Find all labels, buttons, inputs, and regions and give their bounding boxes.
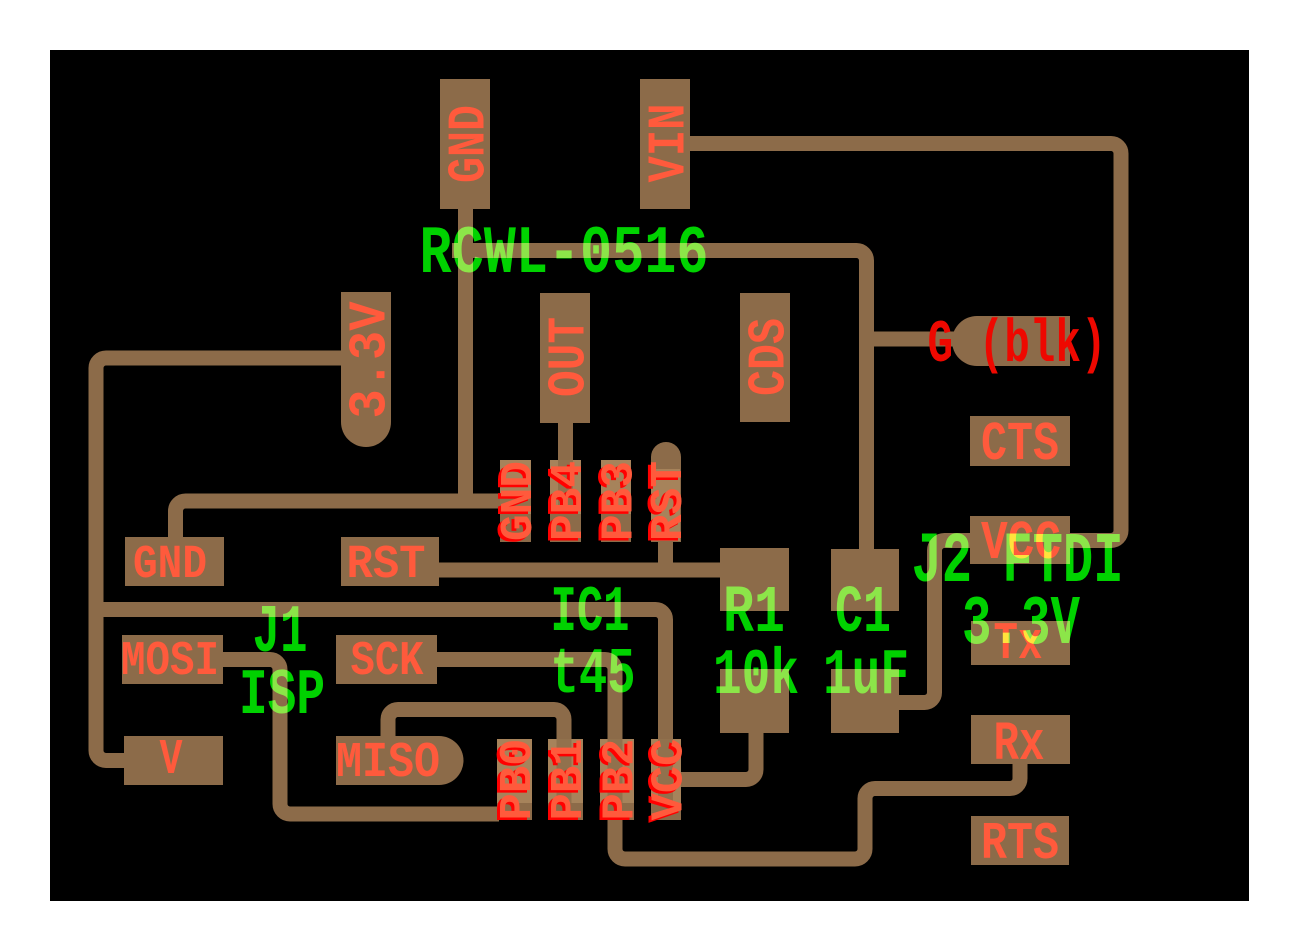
svg-text:RCWL-0516: RCWL-0516: [420, 216, 709, 293]
pad Rx (FTDI): [971, 715, 1070, 764]
svg-text:CDS: CDS: [740, 318, 800, 396]
wire VIN to FTDI VCC: [688, 144, 1121, 541]
pin pad PB1 of IC1 (light zone): [548, 739, 583, 803]
capacitor C1 bottom pad: [831, 669, 899, 733]
pad VCC (FTDI): [970, 516, 1070, 564]
pin pad PB0 of IC1 (light zone): [497, 739, 532, 803]
pad Tx (FTDI): [971, 621, 1070, 665]
wire 3.3V to V pad (left rail): [96, 358, 343, 761]
svg-text:PB4: PB4: [545, 461, 596, 541]
svg-text:OUT: OUT: [539, 317, 600, 397]
pin pad VCC of IC1 (light zone): [651, 739, 681, 803]
pad SCK (ISP header): [336, 635, 437, 684]
svg-text:10k: 10k: [713, 639, 799, 713]
pad VIN (module, top): [640, 79, 690, 209]
svg-text:G (blk): G (blk): [928, 310, 1107, 379]
pad RTS (FTDI): [971, 816, 1069, 865]
wire GND-left pad riser + horizontal to GND pin: [176, 501, 518, 539]
svg-text:GND: GND: [440, 105, 500, 183]
pad MOSI (ISP header): [122, 635, 223, 684]
svg-text:Rx: Rx: [994, 713, 1045, 775]
pin pad PB3 of IC1 (copper zone): [601, 514, 631, 542]
svg-text:PB2: PB2: [595, 739, 647, 821]
svg-text:GND: GND: [495, 461, 546, 541]
svg-text:t45: t45: [551, 639, 636, 712]
pad G blk (rounded left pill): [952, 316, 1070, 366]
svg-text:ISP: ISP: [239, 659, 325, 733]
wire RST pin stub: [658, 540, 673, 570]
svg-text:MOSI: MOSI: [121, 635, 219, 689]
wire branch to G (blk) pad: [867, 332, 956, 347]
pad RST (ISP header): [341, 537, 439, 586]
wire RST pad to resistor R1: [437, 563, 722, 578]
pin pad PB1 of IC1 (copper zone): [548, 803, 583, 820]
pin pad PB4 of IC1 (light zone): [550, 460, 581, 514]
pad CDS (module): [740, 293, 790, 422]
wire shadow through VCC pin pad: [658, 739, 673, 803]
pin pad VCC of IC1 (copper zone): [651, 803, 681, 820]
capacitor C1 top pad: [831, 549, 899, 611]
svg-text:V: V: [160, 733, 183, 789]
svg-text:VIN: VIN: [639, 104, 700, 183]
wire GND net horizontal (RCWL row): [452, 251, 867, 554]
svg-text:GND: GND: [133, 539, 207, 592]
resistor R1 bottom pad: [720, 669, 789, 733]
wire shadow through PB4 pad: [558, 460, 573, 514]
pad OUT (module): [540, 293, 590, 423]
wire OUT pad to PB4 pin: [558, 421, 573, 462]
pad 3.3V (module, rounded bottom): [341, 292, 391, 447]
pin pad GND of IC1 (copper zone): [500, 514, 531, 542]
pin pad GND of IC1 (light zone): [500, 460, 531, 514]
pin pad PB3 of IC1 (light zone): [601, 460, 631, 514]
svg-text:RST: RST: [347, 538, 426, 592]
svg-text:SCK: SCK: [351, 635, 424, 689]
pad RST pin of IC1 (rounded top pill): [651, 442, 681, 542]
pad GND (module, top): [440, 79, 490, 209]
svg-text:PB1: PB1: [543, 739, 595, 821]
wire PB2 to Rx (bottom run): [615, 762, 1020, 859]
svg-text:RST: RST: [645, 461, 696, 541]
svg-text:3.3V: 3.3V: [962, 586, 1081, 665]
svg-text:1uF: 1uF: [823, 639, 909, 713]
pad CTS (FTDI): [970, 416, 1070, 466]
wire MISO riser to PB1: [388, 710, 564, 742]
svg-text:CTS: CTS: [981, 414, 1059, 476]
wire GND-top to GND junction (vertical): [458, 205, 473, 501]
wire C1 bottom to FTDI VCC (J2 riser): [897, 541, 972, 703]
svg-text:MISO: MISO: [336, 735, 440, 792]
svg-text:RTS: RTS: [981, 814, 1059, 874]
wire MOSI to PB0 (ISP loop): [221, 660, 499, 815]
svg-text:PB0: PB0: [492, 739, 544, 821]
pin pad RST of IC1 (light zone): [651, 469, 680, 541]
pad GND (ISP header): [125, 537, 224, 586]
pad MISO (rounded right pill): [336, 736, 464, 785]
resistor R1 top pad: [720, 548, 789, 611]
svg-text:PB3: PB3: [595, 461, 646, 541]
wire SCK to PB2 riser: [435, 660, 615, 742]
pad V (ISP header): [124, 736, 223, 785]
wire shadow through GND pin pad: [500, 494, 531, 509]
wire resistor R1 bottom to VCC pin: [679, 731, 756, 780]
svg-text:3.3V: 3.3V: [342, 301, 401, 418]
pin pad PB0 of IC1 (copper zone): [497, 803, 532, 820]
wire IC1 row: left rail to VCC pin riser: [94, 610, 666, 742]
wire shadow through PB2 pad: [608, 739, 623, 803]
pin pad PB4 of IC1 (copper zone): [550, 514, 581, 542]
pin pad PB2 of IC1 (light zone): [600, 739, 634, 803]
pin pad PB2 of IC1 (copper zone): [600, 803, 634, 820]
svg-text:VCC: VCC: [644, 739, 696, 821]
wire shadow through PB1 pad: [557, 739, 572, 803]
